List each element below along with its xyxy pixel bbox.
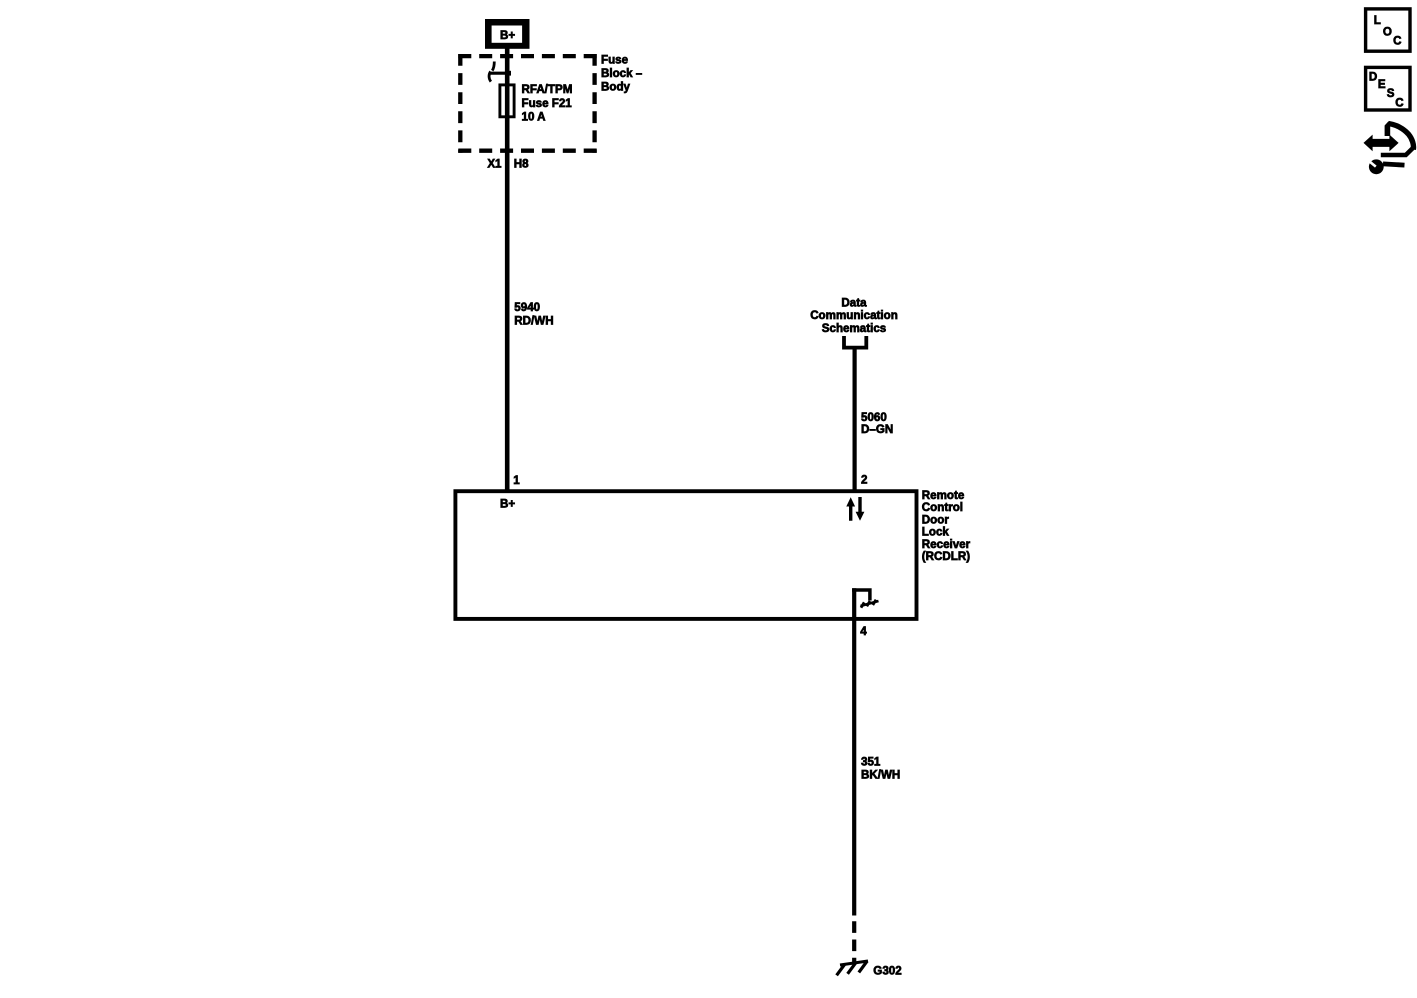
repair instructions icon: double arrow <box>1364 135 1399 152</box>
bidirectional data arrows inside RCDLR <box>846 497 864 521</box>
svg-text:D: D <box>1369 70 1377 83</box>
internal ground path at pin 4 <box>852 588 878 618</box>
svg-text:G302: G302 <box>873 965 901 978</box>
svg-text:C: C <box>1393 34 1402 47</box>
svg-text:C: C <box>1395 96 1404 109</box>
svg-text:BK/WH: BK/WH <box>861 768 900 781</box>
svg-text:Body: Body <box>601 81 631 94</box>
svg-text:O: O <box>1383 26 1392 39</box>
svg-text:RFA/TPM: RFA/TPM <box>522 83 573 96</box>
fuse clip hook symbol <box>489 62 511 82</box>
node: data communication schematics reference <box>810 297 898 336</box>
repair instructions icon: wrench <box>1369 159 1405 174</box>
svg-text:Fuse: Fuse <box>601 54 629 67</box>
svg-text:E: E <box>1378 78 1386 91</box>
fuse F21 value label <box>522 83 573 123</box>
svg-text:H8: H8 <box>514 158 529 171</box>
svg-text:Lock: Lock <box>922 526 950 539</box>
wire label 5060 D-GN <box>861 411 893 436</box>
svg-text:L: L <box>1374 14 1381 27</box>
svg-text:RD/WH: RD/WH <box>514 314 553 327</box>
wire from bracket to RCDLR pin 2 <box>852 348 856 491</box>
svg-text:351: 351 <box>861 755 881 768</box>
svg-text:5940: 5940 <box>514 301 540 314</box>
svg-text:D–GN: D–GN <box>861 423 893 436</box>
svg-text:Door: Door <box>922 513 950 526</box>
svg-text:Control: Control <box>922 501 963 514</box>
fuse block body dashed outline <box>458 54 596 153</box>
RCDLR module name label <box>922 489 971 563</box>
svg-text:4: 4 <box>860 625 867 638</box>
svg-text:Communication: Communication <box>810 309 898 322</box>
ground G302 symbol <box>837 961 868 975</box>
svg-text:(RCDLR): (RCDLR) <box>922 550 970 563</box>
fuse F21 rectangle <box>500 85 514 117</box>
svg-text:Receiver: Receiver <box>922 538 971 551</box>
LOC navigation box <box>1366 9 1410 51</box>
svg-text:Schematics: Schematics <box>822 322 886 335</box>
svg-text:Remote: Remote <box>922 489 965 502</box>
svg-text:10 A: 10 A <box>522 111 547 124</box>
svg-text:Block –: Block – <box>601 67 643 80</box>
svg-text:5060: 5060 <box>861 411 887 424</box>
repair instructions icon: curved arrow band <box>1381 121 1414 155</box>
svg-text:1: 1 <box>513 474 520 487</box>
dashed wire continuation <box>852 921 856 962</box>
svg-text:Data: Data <box>841 297 867 310</box>
DESC navigation box <box>1366 67 1410 110</box>
svg-text:X1: X1 <box>487 158 502 171</box>
RCDLR module box <box>455 491 916 619</box>
svg-text:B+: B+ <box>500 29 515 42</box>
svg-text:Fuse F21: Fuse F21 <box>522 97 573 110</box>
off-page bracket <box>844 336 866 348</box>
wire label 5940 RD/WH <box>514 301 553 327</box>
svg-text:B+: B+ <box>500 498 515 511</box>
wire from B+ through fuse to RCDLR pin 1 <box>505 47 510 490</box>
wire label 351 BK/WH <box>861 755 900 781</box>
B+ battery terminal box <box>485 19 530 49</box>
svg-text:S: S <box>1387 87 1395 100</box>
svg-text:2: 2 <box>861 473 867 486</box>
wire from pin 4 toward ground <box>852 619 856 916</box>
fuse block body label <box>601 54 643 94</box>
